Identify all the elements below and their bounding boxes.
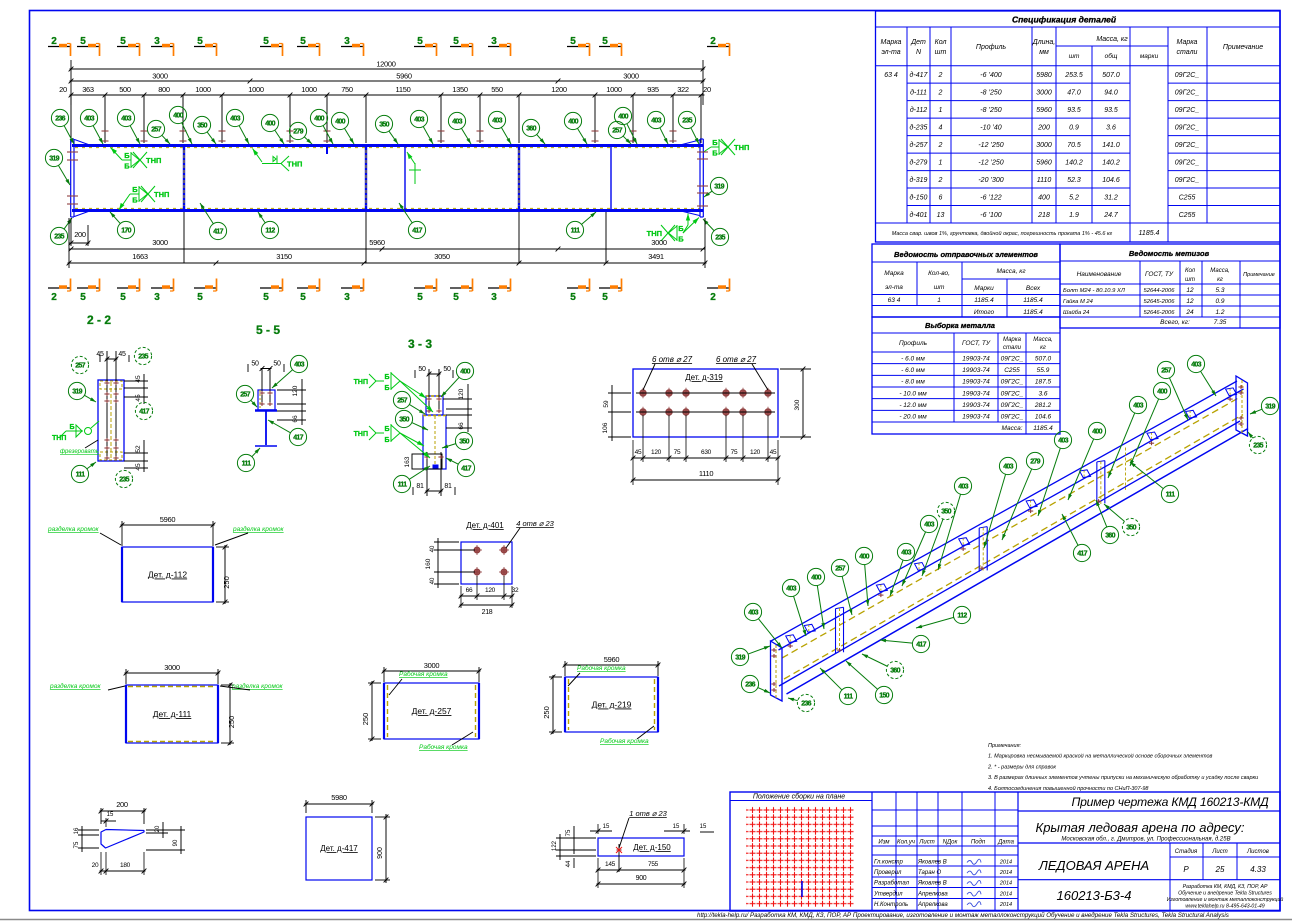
- svg-text:5960: 5960: [369, 238, 385, 247]
- svg-text:94.0: 94.0: [1104, 89, 1118, 96]
- svg-text:417: 417: [412, 228, 422, 235]
- svg-text:257: 257: [240, 392, 250, 399]
- svg-text:Апрелкова: Апрелкова: [917, 902, 948, 908]
- svg-text:400: 400: [1157, 389, 1167, 396]
- svg-text:Всех: Всех: [1026, 285, 1041, 292]
- beam stiffener x=366: [365, 147, 367, 209]
- svg-text:Разработка КМ, КМД, КЗ, ПОР, А: Разработка КМ, КМД, КЗ, ПОР, АР: [1183, 884, 1268, 890]
- svg-text:187.5: 187.5: [1035, 379, 1052, 386]
- svg-text:1350: 1350: [452, 85, 468, 94]
- svg-text:эл-та: эл-та: [881, 49, 900, 56]
- svg-text:3000: 3000: [424, 661, 440, 670]
- svg-text:5 - 5: 5 - 5: [256, 323, 280, 337]
- svg-text:417: 417: [293, 435, 303, 442]
- svg-text:Проверил: Проверил: [874, 870, 902, 876]
- svg-text:ТНП: ТНП: [146, 156, 161, 165]
- notes: [987, 743, 1258, 792]
- svg-text:1.9: 1.9: [1069, 212, 1079, 219]
- beam left top chamfer: [75, 140, 92, 146]
- svg-text:403: 403: [1133, 403, 1143, 410]
- svg-text:д-257: д-257: [910, 141, 929, 149]
- svg-text:5.2: 5.2: [1069, 194, 1079, 201]
- svg-text:09Г2С_: 09Г2С_: [1175, 159, 1200, 166]
- svg-text:Масса,: Масса,: [1033, 337, 1052, 343]
- svg-text:3000: 3000: [164, 663, 180, 672]
- svg-text:3.6: 3.6: [1106, 124, 1116, 131]
- svg-text:5.3: 5.3: [1215, 287, 1224, 294]
- svg-text:Утвердил: Утвердил: [873, 891, 903, 897]
- svg-text:2: 2: [938, 72, 943, 79]
- svg-text:7.35: 7.35: [1214, 319, 1227, 326]
- svg-text:Н.Контроль: Н.Контроль: [874, 902, 908, 908]
- svg-text:19903-74: 19903-74: [962, 402, 990, 409]
- svg-text:-10 ’40: -10 ’40: [980, 124, 1002, 131]
- svg-text:1185.4: 1185.4: [1023, 309, 1043, 316]
- svg-text:44: 44: [566, 860, 572, 867]
- bottom gray line: [0, 919, 1292, 921]
- weld dash on stiffener 366: [365, 150, 367, 206]
- svg-text:45: 45: [635, 449, 642, 456]
- svg-text:250: 250: [361, 713, 370, 726]
- title block middle table: [872, 792, 1018, 911]
- callout 170 below beam: [117, 221, 134, 238]
- svg-text:Масса, кг: Масса, кг: [996, 268, 1026, 275]
- svg-text:403: 403: [901, 550, 911, 557]
- svg-text:250: 250: [227, 716, 236, 729]
- svg-text:д-235: д-235: [910, 123, 928, 131]
- svg-text:403: 403: [1191, 362, 1201, 369]
- svg-text:Обучение и внедрение Tekla Str: Обучение и внедрение Tekla Structures: [1178, 891, 1272, 897]
- svg-text:стали: стали: [1003, 345, 1022, 351]
- callout 112 below beam: [261, 221, 278, 238]
- svg-text:Ведомость отправочных элементо: Ведомость отправочных элементов: [894, 250, 1038, 259]
- svg-text:3000: 3000: [623, 72, 639, 81]
- svg-text:111: 111: [76, 472, 86, 479]
- callout 319 left: [45, 149, 62, 166]
- svg-text:20: 20: [59, 85, 67, 94]
- svg-text:19903-74: 19903-74: [962, 390, 990, 397]
- svg-text:3000: 3000: [651, 238, 667, 247]
- svg-text:3000: 3000: [152, 238, 168, 247]
- detail gusset д-235: [74, 800, 185, 875]
- svg-text:417: 417: [916, 642, 926, 649]
- svg-text:4: 4: [939, 124, 943, 131]
- svg-text:Апрелкова: Апрелкова: [917, 891, 948, 897]
- svg-text:Б: Б: [384, 374, 389, 381]
- svg-text:Кол.уч: Кол.уч: [897, 840, 915, 846]
- svg-text:2014: 2014: [999, 870, 1012, 876]
- svg-text:66: 66: [292, 415, 299, 423]
- svg-text:236: 236: [55, 116, 65, 123]
- svg-text:Кол: Кол: [935, 39, 947, 46]
- svg-text:Положение сборки на плане: Положение сборки на плане: [753, 793, 845, 801]
- svg-text:350: 350: [459, 439, 469, 446]
- title block right part: [1018, 795, 1283, 911]
- svg-text:319: 319: [735, 655, 745, 662]
- svg-text:С255: С255: [1179, 212, 1196, 219]
- svg-text:2: 2: [938, 89, 943, 96]
- svg-text:Марка: Марка: [1177, 39, 1198, 46]
- svg-text:3: 3: [154, 292, 160, 303]
- svg-text:-6 ’400: -6 ’400: [980, 72, 1002, 79]
- svg-text:Примечание: Примечание: [1243, 272, 1275, 278]
- svg-text:507.0: 507.0: [1035, 355, 1052, 362]
- svg-text:3000: 3000: [152, 72, 168, 81]
- svg-text:141.0: 141.0: [1102, 142, 1120, 149]
- svg-text:2: 2: [938, 142, 943, 149]
- svg-text:63 4: 63 4: [884, 72, 898, 79]
- svg-text:50: 50: [273, 361, 281, 368]
- callout 235 left bottom: [50, 227, 67, 244]
- svg-text:1110: 1110: [1037, 177, 1052, 184]
- svg-text:24.7: 24.7: [1103, 212, 1119, 219]
- svg-text:1 отв ⌀ 23: 1 отв ⌀ 23: [629, 809, 667, 818]
- svg-text:Масса:: Масса:: [1001, 425, 1022, 432]
- title block frame: [730, 792, 1280, 911]
- svg-text:150: 150: [879, 693, 889, 700]
- svg-text:09Г2С_: 09Г2С_: [1175, 177, 1200, 184]
- svg-text:5980: 5980: [331, 793, 347, 802]
- svg-text:111: 111: [571, 228, 581, 235]
- svg-text:1: 1: [937, 297, 941, 304]
- svg-text:47.0: 47.0: [1067, 89, 1081, 96]
- svg-text:09Г2С_: 09Г2С_: [1001, 390, 1024, 397]
- svg-text:319: 319: [49, 156, 59, 163]
- beam top flange: [72, 144, 703, 147]
- svg-text:марки: марки: [1140, 53, 1159, 60]
- svg-text:160: 160: [425, 558, 432, 569]
- svg-text:3: 3: [154, 36, 160, 47]
- svg-text:5: 5: [300, 36, 306, 47]
- svg-text:http://tekla-help.ru/ Разрабо: http://tekla-help.ru/ Разработка КМ, КМД…: [697, 912, 1229, 919]
- svg-text:ГОСТ, ТУ: ГОСТ, ТУ: [1145, 271, 1174, 278]
- svg-text:12: 12: [1186, 287, 1194, 294]
- svg-text:Дет. д-257: Дет. д-257: [412, 706, 452, 716]
- svg-text:52646-2006: 52646-2006: [1144, 310, 1176, 316]
- svg-text:Дет. д-417: Дет. д-417: [320, 844, 358, 853]
- svg-text:257: 257: [151, 127, 161, 134]
- svg-text:218: 218: [482, 609, 493, 616]
- svg-text:360: 360: [890, 668, 900, 675]
- svg-text:45: 45: [770, 449, 777, 456]
- svg-text:шт: шт: [1185, 277, 1195, 283]
- svg-text:Шайба 24: Шайба 24: [1063, 309, 1089, 316]
- svg-text:Б: Б: [132, 185, 138, 194]
- svg-text:400: 400: [859, 554, 869, 561]
- svg-text:45: 45: [135, 375, 142, 383]
- beam stiffener x=184: [183, 147, 185, 209]
- svg-text:Спецификация деталей: Спецификация деталей: [1012, 15, 1117, 25]
- svg-text:ТНП: ТНП: [52, 435, 66, 442]
- svg-text:-8 ’250: -8 ’250: [980, 89, 1002, 96]
- svg-text:755: 755: [648, 861, 659, 868]
- svg-text:403: 403: [452, 119, 462, 126]
- svg-text:Марка: Марка: [884, 270, 904, 277]
- svg-text:09Г2С_: 09Г2С_: [1175, 89, 1200, 96]
- svg-text:2014: 2014: [999, 891, 1012, 897]
- svg-text:25: 25: [1215, 865, 1225, 874]
- table Ведомость отправочных элементов: [872, 244, 1060, 317]
- svg-text:400: 400: [265, 121, 275, 128]
- svg-text:- 20.0 мм: - 20.0 мм: [899, 414, 927, 421]
- detail д-401: [425, 519, 555, 616]
- svg-text:д-319: д-319: [910, 176, 928, 184]
- svg-text:5: 5: [602, 292, 608, 303]
- detail д-112: [47, 515, 285, 604]
- svg-text:09Г2С_: 09Г2С_: [1001, 379, 1024, 386]
- svg-text:13: 13: [937, 212, 945, 219]
- svg-text:630: 630: [701, 449, 712, 456]
- svg-text:400: 400: [568, 119, 578, 126]
- svg-text:ТНП: ТНП: [734, 143, 749, 152]
- svg-text:1663: 1663: [132, 252, 148, 261]
- svg-text:350: 350: [1126, 525, 1136, 532]
- svg-text:63 4: 63 4: [888, 297, 901, 304]
- weld symbol right bottom: [676, 225, 678, 241]
- svg-text:5980: 5980: [1036, 72, 1052, 79]
- svg-text:эл-та: эл-та: [885, 284, 903, 291]
- svg-text:5960: 5960: [160, 515, 176, 524]
- svg-text:900: 900: [377, 847, 384, 859]
- svg-text:12: 12: [1186, 298, 1194, 305]
- svg-text:5960: 5960: [1036, 107, 1052, 114]
- svg-text:52645-2006: 52645-2006: [1144, 299, 1176, 305]
- svg-text:52644-2006: 52644-2006: [1144, 288, 1176, 294]
- svg-text:111: 111: [242, 461, 252, 468]
- svg-text:Марка: Марка: [881, 39, 902, 46]
- svg-text:403: 403: [1003, 464, 1013, 471]
- svg-text:С255: С255: [1004, 367, 1020, 374]
- svg-text:403: 403: [492, 118, 502, 125]
- svg-text:5960: 5960: [396, 72, 412, 81]
- svg-text:363: 363: [82, 85, 94, 94]
- svg-text:Профиль: Профиль: [976, 44, 1007, 51]
- svg-text:Р: Р: [1183, 865, 1189, 874]
- svg-text:1185.4: 1185.4: [974, 297, 994, 304]
- svg-text:Марки: Марки: [974, 285, 994, 292]
- svg-text:Рабочая кромка: Рабочая кромка: [399, 670, 448, 678]
- svg-text:3: 3: [344, 36, 350, 47]
- callout 235 right bottom: [711, 228, 728, 245]
- svg-text:Рабочая кромка: Рабочая кромка: [577, 664, 626, 672]
- svg-text:Крытая ледовая арена по адресу: Крытая ледовая арена по адресу:: [1036, 820, 1245, 835]
- svg-text:75: 75: [731, 449, 738, 456]
- svg-text:3: 3: [491, 292, 497, 303]
- svg-text:5: 5: [197, 36, 203, 47]
- svg-text:Болт М24 - 80.10.9 ХЛ: Болт М24 - 80.10.9 ХЛ: [1063, 288, 1125, 294]
- svg-text:-8 ’250: -8 ’250: [980, 107, 1002, 114]
- dimension 3000-5960-3000 top: [70, 80, 705, 82]
- svg-text:Дет: Дет: [910, 39, 926, 46]
- svg-text:5: 5: [570, 36, 576, 47]
- svg-text:257: 257: [835, 566, 845, 573]
- svg-text:09Г2С_: 09Г2С_: [1001, 414, 1024, 421]
- svg-text:500: 500: [119, 85, 131, 94]
- svg-text:Масса,: Масса,: [1210, 268, 1229, 274]
- svg-text:112: 112: [265, 228, 275, 235]
- svg-text:Изм: Изм: [878, 840, 889, 846]
- svg-text:д-111: д-111: [910, 88, 927, 96]
- svg-text:403: 403: [786, 586, 796, 593]
- section 3-3: [354, 337, 475, 496]
- svg-text:400: 400: [811, 575, 821, 582]
- svg-text:шт: шт: [934, 284, 945, 291]
- svg-text:120: 120: [485, 587, 496, 594]
- svg-text:Лист: Лист: [918, 840, 934, 846]
- svg-text:-6 ’122: -6 ’122: [980, 194, 1002, 201]
- svg-text:кг: кг: [1040, 345, 1046, 351]
- bolt marks on beam: [67, 131, 677, 204]
- svg-text:Б: Б: [124, 162, 130, 171]
- svg-text:81: 81: [444, 483, 452, 490]
- svg-text:Гайка М 24: Гайка М 24: [1063, 298, 1093, 305]
- svg-text:3150: 3150: [276, 252, 292, 261]
- svg-text:300: 300: [794, 399, 801, 410]
- svg-text:112: 112: [957, 613, 967, 620]
- svg-text:Яковлев В: Яковлев В: [917, 860, 947, 866]
- svg-text:50: 50: [418, 366, 426, 373]
- svg-text:140.2: 140.2: [1065, 159, 1083, 166]
- svg-text:403: 403: [1058, 438, 1068, 445]
- beam left bottom chamfer: [75, 211, 92, 217]
- svg-text:д-279: д-279: [910, 158, 928, 166]
- callouts above beam: [51, 106, 699, 144]
- svg-text:122: 122: [552, 840, 558, 851]
- svg-text:ТНП: ТНП: [354, 379, 368, 386]
- svg-text:3. В размерах длинных элементо: 3. В размерах длинных элементов учтены п…: [988, 775, 1258, 781]
- svg-text:45: 45: [135, 463, 142, 471]
- svg-text:5: 5: [263, 292, 269, 303]
- svg-text:Марка: Марка: [1003, 337, 1022, 343]
- svg-text:- 8.0 мм: - 8.0 мм: [901, 379, 925, 386]
- svg-text:6 отв ⌀ 27: 6 отв ⌀ 27: [716, 355, 757, 364]
- svg-text:Б: Б: [69, 424, 74, 431]
- svg-text:66: 66: [466, 587, 473, 594]
- svg-text:322: 322: [677, 85, 689, 94]
- beam stiffener x=519: [518, 147, 520, 209]
- svg-text:400: 400: [335, 119, 345, 126]
- weld dash on stiffener 519: [518, 150, 520, 206]
- svg-text:2014: 2014: [999, 860, 1012, 866]
- svg-text:09Г2С_: 09Г2С_: [1175, 124, 1200, 131]
- svg-text:200: 200: [1037, 124, 1050, 131]
- beam bottom flange: [72, 209, 703, 212]
- svg-text:19903-74: 19903-74: [962, 379, 990, 386]
- svg-text:319: 319: [1265, 404, 1275, 411]
- svg-text:170: 170: [121, 228, 131, 235]
- weld dashed line top flange: [75, 147, 700, 149]
- svg-text:3 - 3: 3 - 3: [408, 337, 432, 351]
- callout 111 below beam: [566, 221, 583, 238]
- svg-text:900: 900: [636, 875, 647, 882]
- svg-text:257: 257: [1161, 368, 1171, 375]
- isometric callouts: [731, 355, 1278, 711]
- svg-text:40: 40: [430, 577, 436, 584]
- svg-text:общ: общ: [1105, 52, 1118, 60]
- svg-text:1185.4: 1185.4: [1139, 230, 1160, 237]
- svg-text:Дет. д-150: Дет. д-150: [633, 843, 671, 852]
- svg-text:4.33: 4.33: [1250, 865, 1266, 874]
- callout 417 below beam: [408, 221, 425, 238]
- weld symbol 3: [262, 163, 281, 165]
- svg-text:3000: 3000: [1036, 89, 1052, 96]
- svg-text:20: 20: [92, 862, 99, 869]
- svg-text:350: 350: [379, 122, 389, 129]
- svg-text:Б: Б: [384, 426, 389, 433]
- svg-text:Наименование: Наименование: [1077, 271, 1122, 278]
- svg-text:3000: 3000: [1036, 142, 1052, 149]
- svg-text:ТНП: ТНП: [154, 190, 169, 199]
- svg-text:1.2: 1.2: [1215, 309, 1224, 316]
- isometric beam: [771, 376, 1249, 701]
- svg-text:Московская обл., г. Дмитров, у: Московская обл., г. Дмитров, ул. Професс…: [1061, 837, 1230, 843]
- svg-text:55.9: 55.9: [1037, 367, 1050, 374]
- svg-text:236: 236: [801, 701, 811, 708]
- svg-text:5: 5: [197, 292, 203, 303]
- section cut marks bottom row: [48, 279, 730, 304]
- svg-text:Рабочая кромка: Рабочая кромка: [600, 737, 649, 745]
- svg-text:ЛЕДОВАЯ АРЕНА: ЛЕДОВАЯ АРЕНА: [1038, 858, 1149, 873]
- svg-text:19903-74: 19903-74: [962, 355, 990, 362]
- weld dash on stiffener 184: [183, 150, 185, 206]
- svg-text:400: 400: [1038, 194, 1050, 201]
- svg-text:1000: 1000: [195, 85, 211, 94]
- svg-text:Кол: Кол: [1185, 268, 1196, 274]
- svg-text:д-112: д-112: [910, 106, 927, 114]
- svg-text:93.5: 93.5: [1067, 107, 1081, 114]
- svg-text:111: 111: [398, 482, 408, 489]
- detail д-257: [361, 661, 481, 751]
- svg-text:Б: Б: [712, 138, 718, 147]
- svg-text:235: 235: [682, 118, 692, 125]
- svg-text:С255: С255: [1179, 194, 1196, 201]
- svg-text:-12 ’250: -12 ’250: [978, 159, 1003, 166]
- svg-text:140.2: 140.2: [1102, 159, 1120, 166]
- svg-text:09Г2С_: 09Г2С_: [1175, 142, 1200, 149]
- svg-text:400: 400: [618, 114, 628, 121]
- svg-text:д-150: д-150: [910, 193, 928, 201]
- weld symbol 1: [130, 152, 132, 168]
- svg-text:250: 250: [542, 706, 551, 719]
- svg-text:1110: 1110: [699, 469, 714, 478]
- svg-text:Подп: Подп: [971, 840, 986, 846]
- svg-text:50: 50: [443, 366, 451, 373]
- svg-text:- 12.0 мм: - 12.0 мм: [899, 402, 927, 409]
- svg-text:45: 45: [135, 394, 142, 402]
- svg-text:235: 235: [54, 234, 64, 241]
- svg-text:16: 16: [74, 827, 80, 834]
- svg-text:5960: 5960: [1036, 159, 1052, 166]
- svg-text:5: 5: [570, 292, 576, 303]
- svg-text:Разработал: Разработал: [874, 881, 910, 887]
- detail д-417: [304, 793, 390, 883]
- svg-text:Дет. д-112: Дет. д-112: [148, 570, 187, 580]
- svg-text:д-401: д-401: [910, 211, 928, 219]
- svg-text:разделка кромок: разделка кромок: [47, 525, 100, 533]
- svg-text:5: 5: [602, 36, 608, 47]
- svg-text:Изготовление и монтаж металлок: Изготовление и монтаж металлоконструкций: [1167, 896, 1284, 903]
- svg-text:750: 750: [341, 85, 353, 94]
- svg-text:Дет. д-219: Дет. д-219: [592, 700, 632, 710]
- svg-text:Дет. д-111: Дет. д-111: [153, 709, 192, 719]
- svg-text:5: 5: [80, 36, 86, 47]
- svg-text:2: 2: [51, 292, 57, 303]
- svg-text:-20 ’300: -20 ’300: [978, 177, 1003, 184]
- svg-text:15: 15: [107, 812, 114, 818]
- svg-text:Б: Б: [384, 385, 389, 392]
- svg-text:Дет. д-401: Дет. д-401: [466, 521, 504, 530]
- svg-text:Лист: Лист: [1211, 849, 1227, 855]
